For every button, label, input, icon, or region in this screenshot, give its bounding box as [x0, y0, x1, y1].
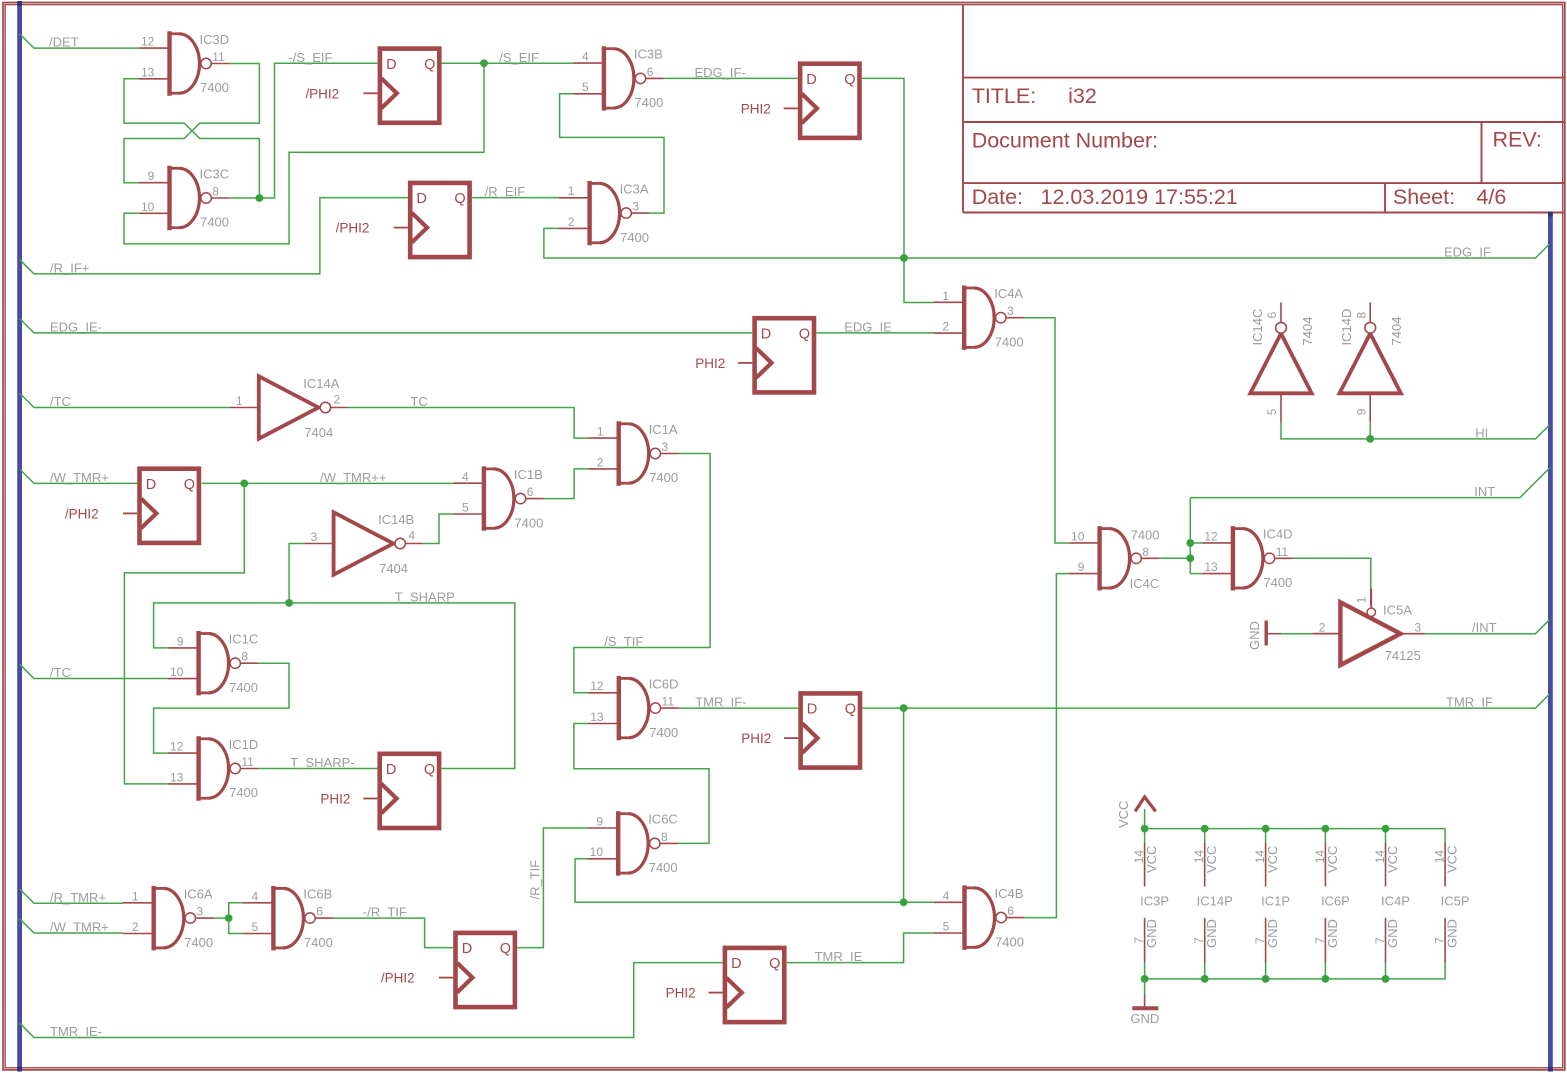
- svg-text:IC3P: IC3P: [1140, 894, 1169, 909]
- svg-text:IC3B: IC3B: [634, 47, 663, 62]
- svg-text:13: 13: [170, 770, 184, 784]
- svg-text:4: 4: [252, 889, 259, 903]
- svg-text:11: 11: [241, 755, 254, 769]
- svg-text:D: D: [416, 191, 426, 207]
- svg-text:3: 3: [1007, 304, 1014, 318]
- svg-text:i32: i32: [1068, 84, 1097, 108]
- svg-text:5: 5: [1265, 408, 1279, 415]
- svg-text:Q: Q: [769, 956, 780, 972]
- svg-text:12: 12: [170, 740, 184, 754]
- svg-text:7400: 7400: [229, 680, 258, 695]
- svg-text:6: 6: [1265, 312, 1279, 319]
- svg-text:Q: Q: [424, 762, 435, 778]
- svg-text:2: 2: [942, 320, 949, 334]
- svg-text:D: D: [386, 57, 396, 73]
- svg-text:9: 9: [1354, 408, 1368, 415]
- svg-text:7400: 7400: [200, 215, 229, 230]
- svg-text:GND: GND: [1144, 919, 1159, 948]
- svg-text:VCC: VCC: [1325, 846, 1340, 873]
- svg-text:7400: 7400: [304, 935, 333, 950]
- svg-text:IC1B: IC1B: [514, 467, 543, 482]
- svg-text:/R_TIF: /R_TIF: [528, 860, 543, 900]
- svg-text:7400: 7400: [649, 860, 678, 875]
- svg-text:IC4D: IC4D: [1263, 527, 1293, 542]
- svg-text:7400: 7400: [634, 95, 663, 110]
- svg-text:1: 1: [942, 289, 949, 303]
- svg-text:7404: 7404: [1389, 317, 1404, 346]
- svg-text:TMR_IF: TMR_IF: [1446, 695, 1493, 710]
- svg-text:7400: 7400: [649, 470, 678, 485]
- svg-text:3: 3: [632, 200, 639, 214]
- svg-text:GND: GND: [1130, 1011, 1159, 1026]
- svg-text:IC4C: IC4C: [1130, 576, 1160, 591]
- svg-text:5: 5: [582, 80, 589, 94]
- svg-text:IC6B: IC6B: [303, 886, 332, 901]
- svg-text:/S_TIF: /S_TIF: [604, 634, 643, 649]
- svg-text:2: 2: [568, 215, 575, 229]
- svg-text:D: D: [761, 326, 771, 342]
- svg-text:TC: TC: [410, 394, 427, 409]
- svg-text:Q: Q: [844, 72, 855, 88]
- svg-text:7404: 7404: [379, 561, 408, 576]
- svg-text:13: 13: [590, 710, 604, 724]
- svg-text:10: 10: [170, 665, 184, 679]
- svg-text:IC6D: IC6D: [649, 676, 679, 691]
- svg-text:IC3C: IC3C: [200, 166, 230, 181]
- svg-text:-/R_TIF: -/R_TIF: [363, 905, 407, 920]
- svg-text:/TC: /TC: [50, 394, 71, 409]
- svg-text:12: 12: [141, 35, 155, 49]
- svg-text:HI: HI: [1475, 425, 1488, 440]
- svg-text:T_SHARP-: T_SHARP-: [290, 755, 354, 770]
- svg-text:-/S_EIF: -/S_EIF: [288, 50, 332, 65]
- svg-text:9: 9: [1078, 560, 1085, 574]
- svg-text:TMR_IF-: TMR_IF-: [695, 695, 746, 710]
- svg-text:1: 1: [568, 184, 575, 198]
- svg-text:IC1C: IC1C: [229, 632, 259, 647]
- svg-text:IC6P: IC6P: [1321, 894, 1350, 909]
- svg-text:IC3A: IC3A: [620, 181, 649, 196]
- svg-text:/W_TMR++: /W_TMR++: [320, 470, 386, 485]
- svg-text:PHI2: PHI2: [741, 101, 771, 116]
- svg-text:PHI2: PHI2: [320, 792, 350, 807]
- svg-text:REV:: REV:: [1493, 127, 1542, 151]
- svg-text:GND: GND: [1265, 919, 1280, 948]
- svg-text:7400: 7400: [184, 935, 213, 950]
- svg-text:PHI2: PHI2: [741, 731, 771, 746]
- svg-text:2: 2: [1319, 620, 1326, 634]
- svg-text:10: 10: [1071, 529, 1085, 543]
- svg-text:/INT: /INT: [1472, 620, 1497, 635]
- svg-text:7400: 7400: [200, 80, 229, 95]
- svg-text:EDG_IF-: EDG_IF-: [695, 65, 746, 80]
- svg-text:/PHI2: /PHI2: [336, 221, 370, 236]
- svg-text:74125: 74125: [1385, 648, 1421, 663]
- svg-text:IC3D: IC3D: [200, 32, 230, 47]
- svg-text:IC4P: IC4P: [1381, 894, 1410, 909]
- svg-text:10: 10: [141, 200, 155, 214]
- svg-text:/R_IF+: /R_IF+: [50, 261, 89, 276]
- svg-text:2: 2: [132, 920, 139, 934]
- svg-text:D: D: [146, 477, 156, 493]
- svg-text:4: 4: [462, 470, 469, 484]
- svg-text:GND: GND: [1445, 919, 1460, 948]
- svg-text:7400: 7400: [649, 725, 678, 740]
- svg-text:IC1D: IC1D: [229, 737, 259, 752]
- svg-text:12: 12: [590, 679, 604, 693]
- svg-text:11: 11: [212, 50, 225, 64]
- svg-text:IC5A: IC5A: [1383, 603, 1412, 618]
- svg-text:4: 4: [582, 50, 589, 64]
- svg-text:1: 1: [1355, 596, 1369, 603]
- svg-text:IC6A: IC6A: [184, 886, 213, 901]
- svg-text:1: 1: [132, 889, 139, 903]
- svg-text:IC1P: IC1P: [1261, 894, 1290, 909]
- svg-text:IC14C: IC14C: [1250, 309, 1265, 346]
- svg-text:GND: GND: [1385, 919, 1400, 948]
- svg-text:EDG_IF: EDG_IF: [1444, 245, 1491, 260]
- svg-text:VCC: VCC: [1204, 846, 1219, 873]
- svg-text:7400: 7400: [229, 785, 258, 800]
- svg-text:TMR_IE-: TMR_IE-: [50, 1024, 102, 1039]
- svg-text:3: 3: [662, 440, 669, 454]
- svg-text:IC14D: IC14D: [1339, 309, 1354, 346]
- svg-text:7400: 7400: [1131, 528, 1160, 543]
- svg-text:IC5P: IC5P: [1441, 894, 1470, 909]
- svg-text:IC4B: IC4B: [995, 886, 1024, 901]
- svg-text:5: 5: [252, 920, 259, 934]
- svg-text:8: 8: [1354, 312, 1368, 319]
- svg-text:5: 5: [462, 501, 469, 515]
- svg-text:/W_TMR+: /W_TMR+: [50, 920, 109, 935]
- svg-text:6: 6: [1007, 904, 1014, 918]
- svg-text:8: 8: [1142, 545, 1149, 559]
- svg-text:EDG_IE-: EDG_IE-: [50, 319, 102, 334]
- svg-text:TITLE:: TITLE:: [972, 84, 1037, 108]
- svg-text:8: 8: [661, 830, 668, 844]
- svg-text:T_SHARP: T_SHARP: [395, 589, 455, 604]
- svg-text:6: 6: [647, 65, 654, 79]
- svg-text:TMR_IE: TMR_IE: [815, 949, 863, 964]
- svg-text:D: D: [806, 72, 816, 88]
- svg-text:/PHI2: /PHI2: [381, 971, 415, 986]
- svg-text:VCC: VCC: [1385, 846, 1400, 873]
- svg-text:9: 9: [596, 815, 603, 829]
- svg-text:9: 9: [148, 169, 155, 183]
- svg-text:D: D: [462, 941, 472, 957]
- svg-text:INT: INT: [1474, 484, 1495, 499]
- svg-text:PHI2: PHI2: [695, 356, 725, 371]
- svg-text:7404: 7404: [304, 425, 333, 440]
- svg-text:4/6: 4/6: [1476, 185, 1506, 209]
- svg-text:/W_TMR+: /W_TMR+: [50, 470, 109, 485]
- svg-text:VCC: VCC: [1144, 846, 1159, 873]
- svg-text:/PHI2: /PHI2: [305, 86, 339, 101]
- svg-text:IC14A: IC14A: [303, 376, 339, 391]
- svg-text:3: 3: [1414, 620, 1421, 634]
- svg-text:VCC: VCC: [1445, 846, 1460, 873]
- svg-text:6: 6: [316, 905, 323, 919]
- svg-text:8: 8: [241, 650, 248, 664]
- svg-text:Q: Q: [454, 191, 465, 207]
- svg-text:1: 1: [597, 425, 604, 439]
- svg-text:GND: GND: [1247, 621, 1262, 650]
- svg-text:4: 4: [943, 889, 950, 903]
- svg-text:/R_EIF: /R_EIF: [485, 184, 526, 199]
- svg-text:12.03.2019 17:55:21: 12.03.2019 17:55:21: [1041, 185, 1238, 209]
- svg-text:IC4A: IC4A: [994, 286, 1023, 301]
- svg-text:D: D: [731, 956, 741, 972]
- svg-text:3: 3: [311, 530, 318, 544]
- svg-text:/TC: /TC: [50, 665, 71, 680]
- svg-text:/DET: /DET: [49, 35, 79, 50]
- svg-text:7400: 7400: [1263, 575, 1292, 590]
- svg-text:GND: GND: [1325, 919, 1340, 948]
- svg-text:Document Number:: Document Number:: [972, 129, 1158, 153]
- svg-text:IC6C: IC6C: [648, 812, 678, 827]
- svg-text:/PHI2: /PHI2: [65, 506, 99, 521]
- svg-text:11: 11: [662, 695, 675, 709]
- svg-text:D: D: [807, 702, 817, 718]
- svg-text:VCC: VCC: [1265, 846, 1280, 873]
- svg-text:Q: Q: [184, 477, 195, 493]
- svg-text:12: 12: [1204, 529, 1218, 543]
- svg-text:13: 13: [1204, 560, 1218, 574]
- svg-text:IC14P: IC14P: [1197, 894, 1233, 909]
- svg-text:7400: 7400: [620, 230, 649, 245]
- svg-text:IC1A: IC1A: [649, 422, 678, 437]
- svg-text:13: 13: [141, 65, 155, 79]
- svg-text:D: D: [386, 762, 396, 778]
- svg-text:EDG_IE: EDG_IE: [844, 319, 892, 334]
- svg-text:/S_EIF: /S_EIF: [499, 50, 539, 65]
- svg-text:8: 8: [212, 185, 219, 199]
- svg-text:10: 10: [590, 845, 604, 859]
- svg-text:7400: 7400: [995, 334, 1024, 349]
- svg-text:Q: Q: [424, 57, 435, 73]
- svg-text:GND: GND: [1204, 919, 1219, 948]
- svg-text:5: 5: [943, 920, 950, 934]
- svg-text:IC14B: IC14B: [378, 512, 414, 527]
- svg-text:PHI2: PHI2: [666, 986, 696, 1001]
- svg-text:Q: Q: [845, 702, 856, 718]
- svg-text:6: 6: [527, 485, 534, 499]
- svg-text:Q: Q: [799, 326, 810, 342]
- svg-text:3: 3: [197, 905, 204, 919]
- svg-text:Date:: Date:: [972, 185, 1023, 209]
- svg-text:7400: 7400: [995, 934, 1024, 949]
- svg-text:1: 1: [236, 394, 243, 408]
- svg-text:2: 2: [597, 455, 604, 469]
- svg-text:11: 11: [1276, 545, 1289, 559]
- svg-text:/R_TMR+: /R_TMR+: [50, 890, 106, 905]
- svg-text:9: 9: [177, 634, 184, 648]
- svg-text:7404: 7404: [1300, 317, 1315, 346]
- svg-text:VCC: VCC: [1116, 801, 1131, 828]
- svg-text:4: 4: [408, 529, 415, 543]
- svg-text:2: 2: [334, 393, 341, 407]
- svg-text:Sheet:: Sheet:: [1393, 185, 1455, 209]
- svg-text:7400: 7400: [514, 515, 543, 530]
- svg-text:Q: Q: [500, 941, 511, 957]
